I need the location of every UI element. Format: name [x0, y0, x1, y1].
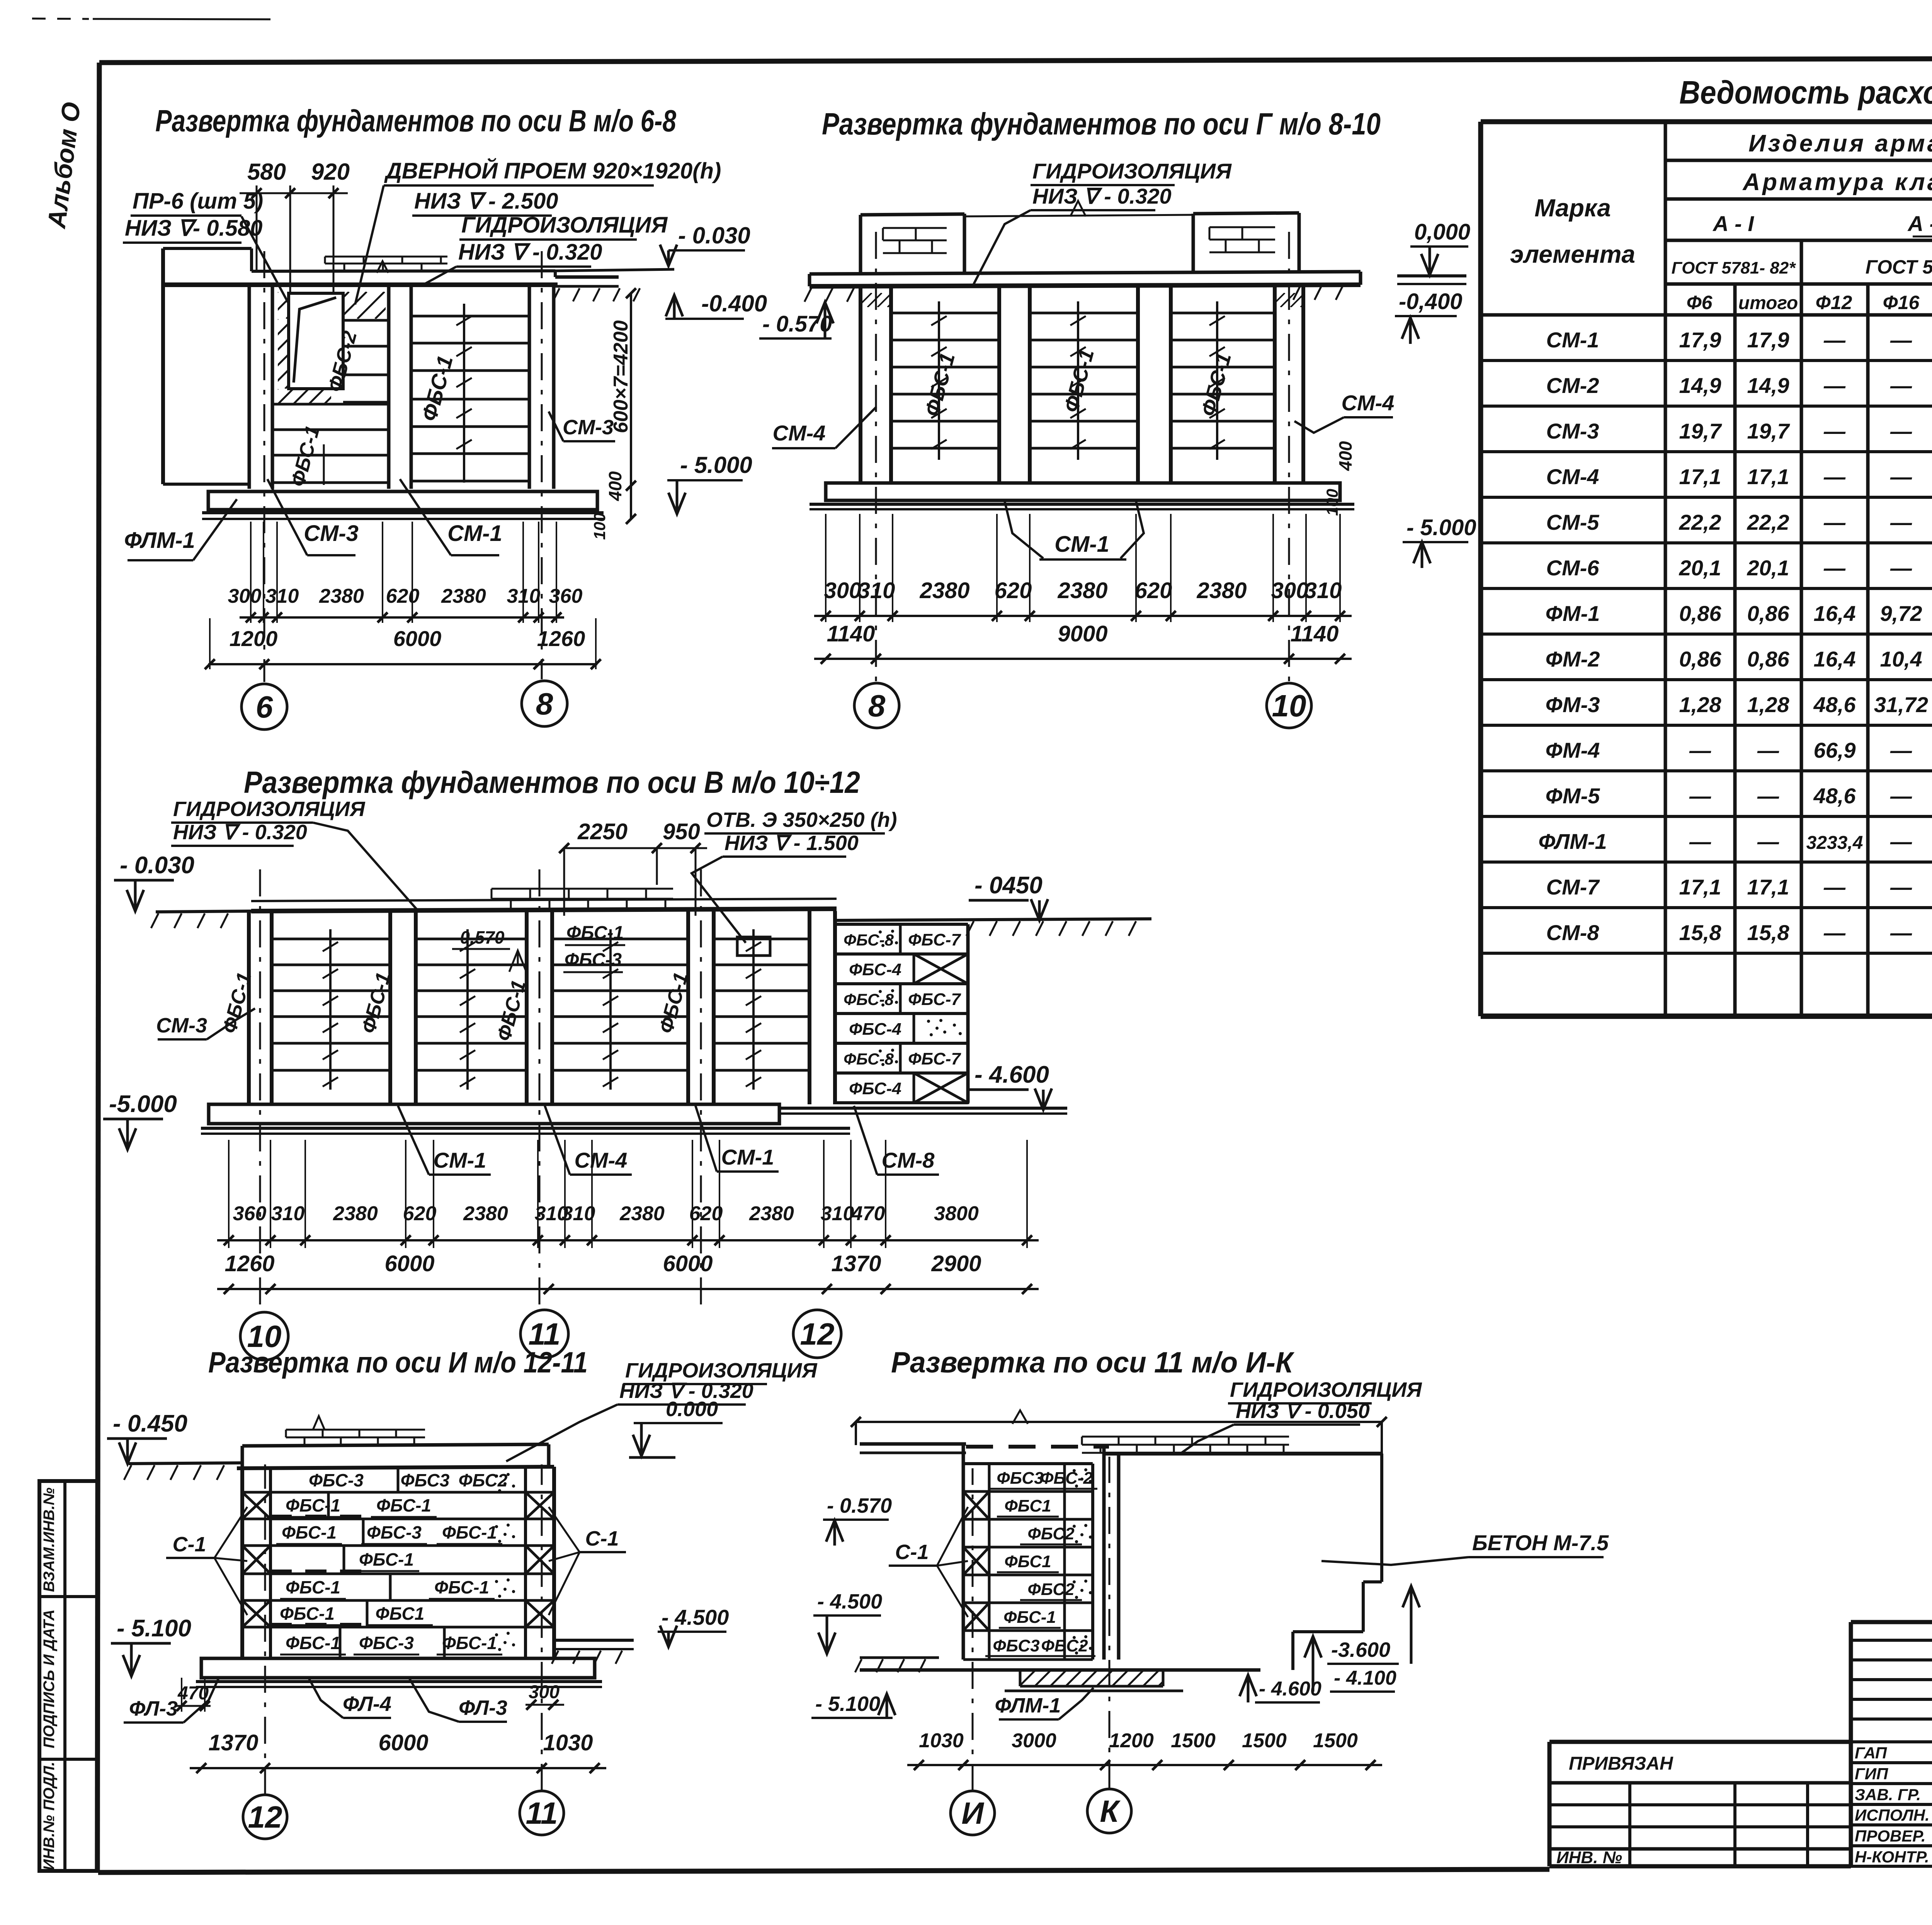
svg-text:СМ-3: СМ-3	[1546, 419, 1599, 443]
svg-text:СМ-8: СМ-8	[1546, 920, 1600, 945]
svg-text:СМ-1: СМ-1	[1546, 328, 1599, 352]
svg-text:8: 8	[868, 689, 886, 723]
svg-text:- 4.500: - 4.500	[817, 1590, 882, 1613]
svg-text:СМ-4: СМ-4	[1342, 391, 1395, 415]
svg-text:ДВЕРНОЙ ПРОЕМ 920×1920(h): ДВЕРНОЙ ПРОЕМ 920×1920(h)	[384, 158, 721, 184]
svg-text:2380: 2380	[749, 1202, 794, 1225]
svg-text:ФБС-1: ФБС-1	[376, 1495, 431, 1515]
svg-text:20,1: 20,1	[1747, 556, 1789, 580]
svg-text:ГИДРОИЗОЛЯЦИЯ: ГИДРОИЗОЛЯЦИЯ	[1230, 1378, 1422, 1401]
svg-text:ФБС2: ФБС2	[1027, 1524, 1075, 1543]
svg-text:ИНВ.№ ПОДЛ.: ИНВ.№ ПОДЛ.	[41, 1762, 58, 1870]
svg-text:-5.000: -5.000	[109, 1091, 177, 1117]
svg-text:Развертка по оси 11 м/о: Развертка по оси 11 м/о И-К	[891, 1346, 1295, 1379]
svg-text:Развертка фундаментов по: Развертка фундаментов по оси В м/о 10÷12	[244, 765, 860, 799]
svg-text:НИЗ ∇ - 1.500: НИЗ ∇ - 1.500	[724, 832, 859, 855]
svg-text:2380: 2380	[1196, 578, 1247, 603]
svg-text:ФБС-1: ФБС-1	[280, 1604, 335, 1624]
svg-text:НИЗ ∇ - 0.320: НИЗ ∇ - 0.320	[1032, 184, 1172, 208]
svg-text:1200: 1200	[230, 626, 278, 651]
svg-text:48,6: 48,6	[1813, 784, 1856, 808]
svg-text:ФБС-4: ФБС-4	[849, 1020, 901, 1039]
svg-text:ФБС-7: ФБС-7	[908, 990, 961, 1009]
svg-text:3000: 3000	[1012, 1729, 1056, 1752]
svg-text:310: 310	[265, 585, 299, 607]
svg-text:- 0.570: - 0.570	[827, 1494, 892, 1517]
svg-text:310: 310	[562, 1202, 595, 1225]
svg-text:1,28: 1,28	[1679, 692, 1722, 717]
svg-text:—: —	[1890, 920, 1912, 945]
svg-text:С-1: С-1	[895, 1541, 929, 1564]
svg-text:2380: 2380	[441, 585, 486, 607]
svg-text:9000: 9000	[1058, 621, 1107, 646]
svg-text:- 5.100: - 5.100	[117, 1615, 191, 1642]
svg-text:И: И	[961, 1796, 984, 1830]
svg-text:—: —	[1757, 738, 1779, 762]
svg-text:1200: 1200	[1109, 1729, 1154, 1752]
svg-text:17,9: 17,9	[1747, 328, 1789, 352]
svg-text:ФБС3: ФБС3	[993, 1636, 1039, 1655]
svg-text:10,4: 10,4	[1880, 647, 1922, 671]
svg-text:ФБС-1: ФБС-1	[286, 1495, 340, 1515]
svg-text:элемента: элемента	[1510, 240, 1635, 268]
svg-text:2380: 2380	[463, 1202, 508, 1225]
svg-text:1140: 1140	[827, 621, 875, 646]
svg-text:ФМ-3: ФМ-3	[1546, 692, 1600, 717]
svg-text:ГИП: ГИП	[1855, 1765, 1888, 1783]
svg-text:ФЛМ-1: ФЛМ-1	[995, 1694, 1061, 1717]
svg-text:20,1: 20,1	[1679, 556, 1721, 580]
svg-text:22,2: 22,2	[1679, 510, 1721, 534]
svg-text:Марка: Марка	[1534, 194, 1611, 222]
svg-text:620: 620	[386, 585, 420, 607]
svg-text:580: 580	[247, 159, 286, 185]
svg-text:300: 300	[529, 1682, 560, 1702]
svg-text:СМ-7: СМ-7	[1546, 875, 1600, 899]
svg-text:17,1: 17,1	[1679, 875, 1721, 899]
svg-text:ГОСТ 5781- 82*: ГОСТ 5781- 82*	[1866, 256, 1932, 278]
svg-text:300: 300	[228, 585, 262, 607]
svg-text:15,8: 15,8	[1747, 920, 1790, 945]
svg-text:48,6: 48,6	[1813, 692, 1856, 717]
svg-text:ФБС-3: ФБС-3	[309, 1470, 364, 1490]
svg-text:СМ-6: СМ-6	[1546, 556, 1600, 580]
svg-text:ФБС-1: ФБС-1	[359, 1549, 414, 1570]
svg-text:ФБС-3: ФБС-3	[359, 1633, 414, 1653]
svg-text:310: 310	[271, 1202, 305, 1225]
svg-text:16,4: 16,4	[1814, 601, 1856, 626]
svg-text:СМ-4: СМ-4	[575, 1148, 628, 1172]
svg-text:0,86: 0,86	[1679, 601, 1722, 626]
svg-text:- 4.500: - 4.500	[662, 1605, 729, 1629]
svg-text:Развертка фундаментов по ос: Развертка фундаментов по оси Г м/о 8-10	[822, 107, 1381, 141]
svg-text:19,7: 19,7	[1679, 419, 1723, 443]
svg-text:400: 400	[1335, 441, 1355, 471]
svg-text:2380: 2380	[333, 1202, 378, 1225]
svg-text:310: 310	[821, 1202, 854, 1225]
svg-text:ФБС2: ФБС2	[459, 1470, 508, 1490]
svg-text:2250: 2250	[577, 819, 628, 844]
svg-text:ФБС-4: ФБС-4	[849, 1079, 901, 1098]
svg-text:100: 100	[1323, 489, 1341, 516]
svg-text:ФБС-8: ФБС-8	[844, 931, 894, 949]
svg-text:ГИДРОИЗОЛЯЦИЯ: ГИДРОИЗОЛЯЦИЯ	[173, 798, 366, 821]
svg-text:ФБС-4: ФБС-4	[849, 960, 901, 979]
svg-text:0.000: 0.000	[666, 1398, 718, 1421]
svg-text:Арматура класса: Арматура класса	[1742, 169, 1932, 196]
svg-text:К: К	[1100, 1794, 1121, 1828]
svg-text:1140: 1140	[1291, 621, 1339, 646]
svg-text:СМ-3: СМ-3	[304, 521, 359, 546]
svg-text:8: 8	[536, 687, 553, 721]
svg-text:17,1: 17,1	[1679, 464, 1721, 489]
svg-text:300: 300	[824, 578, 862, 603]
svg-text:—: —	[1890, 510, 1912, 534]
svg-text:2380: 2380	[319, 585, 364, 607]
svg-text:ФБС2: ФБС2	[1027, 1580, 1075, 1599]
svg-text:620: 620	[403, 1202, 437, 1225]
svg-text:310: 310	[1304, 578, 1342, 603]
svg-text:1370: 1370	[831, 1251, 881, 1276]
svg-text:—: —	[1757, 829, 1779, 854]
svg-text:6000: 6000	[393, 626, 442, 651]
svg-text:1,28: 1,28	[1747, 692, 1790, 717]
svg-text:НИЗ ∇ - 0.320: НИЗ ∇ - 0.320	[173, 821, 307, 844]
svg-text:—: —	[1890, 328, 1912, 352]
svg-text:ГАП: ГАП	[1855, 1744, 1887, 1762]
svg-text:ФБС1: ФБС1	[1004, 1496, 1051, 1515]
svg-text:ФБС-1: ФБС-1	[442, 1633, 497, 1653]
svg-text:—: —	[1890, 738, 1912, 762]
svg-text:17,1: 17,1	[1747, 464, 1789, 489]
svg-text:66,9: 66,9	[1814, 738, 1856, 762]
svg-text:- 0.030: - 0.030	[120, 852, 194, 879]
svg-text:ФБС-3: ФБС-3	[565, 950, 622, 970]
svg-text:ПОДПИСЬ И ДАТА: ПОДПИСЬ И ДАТА	[41, 1609, 58, 1748]
svg-text:ФБС-8: ФБС-8	[844, 990, 894, 1008]
svg-text:360: 360	[233, 1202, 267, 1225]
svg-text:ФБС-1: ФБС-1	[286, 1633, 340, 1653]
svg-text:- 5.000: - 5.000	[1406, 515, 1476, 540]
svg-text:- 5.100: - 5.100	[815, 1692, 880, 1716]
svg-text:- 0.570: - 0.570	[762, 311, 832, 337]
svg-text:1260: 1260	[224, 1251, 274, 1276]
svg-text:—: —	[1823, 875, 1846, 899]
svg-text:—: —	[1823, 328, 1846, 352]
svg-text:ГОСТ 5781- 82*: ГОСТ 5781- 82*	[1672, 258, 1796, 277]
svg-text:ФБС-1: ФБС-1	[282, 1522, 337, 1542]
svg-text:0,86: 0,86	[1747, 647, 1790, 671]
svg-text:300: 300	[1271, 578, 1309, 603]
svg-text:СМ-1: СМ-1	[447, 521, 502, 546]
svg-text:итого: итого	[1738, 293, 1798, 313]
svg-text:470: 470	[851, 1202, 885, 1225]
svg-text:—: —	[1890, 419, 1912, 443]
svg-text:-0,400: -0,400	[1399, 289, 1462, 314]
svg-text:ФМ-4: ФМ-4	[1546, 738, 1600, 762]
svg-text:6000: 6000	[378, 1730, 428, 1755]
svg-text:—: —	[1823, 373, 1846, 398]
svg-text:620: 620	[995, 578, 1032, 603]
svg-text:1500: 1500	[1242, 1729, 1287, 1752]
svg-text:СМ-2: СМ-2	[1546, 373, 1599, 398]
svg-text:-0.570: -0.570	[454, 927, 505, 947]
svg-text:Развертка фундаментов по ос: Развертка фундаментов по оси В м/о 6-8	[155, 104, 676, 138]
svg-text:17,1: 17,1	[1747, 875, 1789, 899]
svg-text:12: 12	[800, 1317, 835, 1351]
svg-text:ФЛ-3: ФЛ-3	[459, 1696, 507, 1719]
svg-text:- 0.450: - 0.450	[113, 1410, 187, 1437]
svg-text:—: —	[1823, 419, 1846, 443]
svg-text:920: 920	[311, 159, 350, 185]
svg-text:СМ-1: СМ-1	[721, 1145, 774, 1169]
svg-text:НИЗ ∇ - 2.500: НИЗ ∇ - 2.500	[414, 189, 558, 214]
svg-text:1500: 1500	[1313, 1729, 1358, 1752]
svg-text:22,2: 22,2	[1747, 510, 1789, 534]
svg-text:6000: 6000	[384, 1251, 434, 1276]
svg-text:СМ-8: СМ-8	[882, 1148, 935, 1172]
svg-text:6: 6	[256, 690, 273, 724]
svg-text:—: —	[1890, 829, 1912, 854]
svg-text:- 5.000: - 5.000	[680, 452, 752, 478]
svg-text:16,4: 16,4	[1814, 647, 1856, 671]
svg-text:—: —	[1689, 738, 1711, 762]
svg-text:6000: 6000	[663, 1251, 713, 1276]
svg-text:ОТВ. Э 350×250 (h): ОТВ. Э 350×250 (h)	[706, 808, 897, 832]
svg-text:ПРИВЯЗАН: ПРИВЯЗАН	[1569, 1753, 1673, 1774]
svg-text:0,000: 0,000	[1414, 219, 1470, 245]
svg-text:9,72: 9,72	[1880, 601, 1922, 626]
svg-text:Изделия арматурные: Изделия арматурные	[1748, 130, 1932, 157]
svg-text:ФМ-5: ФМ-5	[1546, 784, 1600, 808]
svg-text:2380: 2380	[619, 1202, 665, 1225]
svg-text:ФБС-3: ФБС-3	[367, 1522, 422, 1542]
svg-text:СМ-3: СМ-3	[156, 1014, 207, 1037]
svg-text:360: 360	[549, 585, 583, 607]
svg-text:ФБС-1: ФБС-1	[1003, 1608, 1056, 1627]
svg-text:—: —	[1757, 784, 1779, 808]
svg-text:1030: 1030	[543, 1730, 593, 1755]
svg-text:—: —	[1823, 920, 1846, 945]
svg-text:ФБС-1: ФБС-1	[434, 1577, 489, 1597]
svg-text:31,72: 31,72	[1874, 692, 1928, 717]
svg-text:—: —	[1823, 556, 1846, 580]
svg-text:Ведомость расхода стали: Ведомость расхода стали на 1 элемент, кг	[1679, 74, 1932, 111]
svg-text:-3.600: -3.600	[1331, 1638, 1390, 1661]
svg-text:ЗАВ. ГР.: ЗАВ. ГР.	[1855, 1786, 1921, 1804]
svg-text:ГИДРОИЗОЛЯЦИЯ: ГИДРОИЗОЛЯЦИЯ	[461, 213, 668, 238]
svg-text:ФБС-7: ФБС-7	[908, 1049, 961, 1068]
svg-text:11: 11	[526, 1796, 558, 1830]
svg-text:ФБС-2: ФБС-2	[1040, 1469, 1093, 1488]
svg-text:Н-КОНТР.: Н-КОНТР.	[1855, 1848, 1929, 1866]
svg-text:3233,4: 3233,4	[1806, 833, 1863, 853]
svg-text:—: —	[1823, 464, 1846, 489]
svg-text:0,86: 0,86	[1679, 647, 1722, 671]
svg-text:1370: 1370	[208, 1730, 258, 1755]
svg-text:—: —	[1890, 373, 1912, 398]
svg-text:А - Ш: А - Ш	[1907, 211, 1932, 236]
svg-text:17,9: 17,9	[1679, 328, 1721, 352]
svg-text:НИЗ ∇ - 0.320: НИЗ ∇ - 0.320	[458, 240, 602, 265]
svg-text:ФМ-1: ФМ-1	[1546, 601, 1600, 626]
svg-text:СМ-1: СМ-1	[1054, 532, 1109, 557]
svg-text:ФБС-1: ФБС-1	[442, 1522, 497, 1542]
svg-text:620: 620	[689, 1202, 723, 1225]
svg-text:СМ-3: СМ-3	[563, 416, 614, 439]
svg-text:ИСПОЛН.: ИСПОЛН.	[1855, 1806, 1930, 1824]
svg-text:—: —	[1890, 784, 1912, 808]
svg-text:1500: 1500	[1171, 1729, 1216, 1752]
svg-text:—: —	[1890, 556, 1912, 580]
svg-text:400: 400	[605, 471, 625, 501]
svg-text:ФБС3: ФБС3	[997, 1469, 1043, 1488]
svg-text:ФБС1: ФБС1	[1004, 1552, 1051, 1571]
svg-text:ПРОВЕР.: ПРОВЕР.	[1855, 1827, 1926, 1845]
svg-text:ФЛ-4: ФЛ-4	[343, 1692, 391, 1716]
svg-text:12: 12	[248, 1800, 282, 1834]
svg-text:- 0450: - 0450	[975, 872, 1043, 899]
svg-text:—: —	[1689, 784, 1711, 808]
svg-text:ФБС-1: ФБС-1	[566, 923, 624, 943]
svg-text:ФЛ-3: ФЛ-3	[129, 1697, 178, 1720]
svg-text:3800: 3800	[934, 1202, 979, 1225]
svg-text:2900: 2900	[931, 1251, 981, 1276]
svg-text:С-1: С-1	[585, 1527, 619, 1550]
svg-text:Развертка по оси И м/о: Развертка по оси И м/о 12-11	[208, 1346, 588, 1379]
svg-text:ФЛМ-1: ФЛМ-1	[124, 528, 195, 553]
svg-text:600×7=4200: 600×7=4200	[610, 320, 632, 433]
svg-text:ФБС-8: ФБС-8	[844, 1050, 894, 1068]
svg-text:1260: 1260	[537, 626, 585, 651]
svg-text:—: —	[1823, 510, 1846, 534]
svg-text:ФБС3: ФБС3	[401, 1470, 450, 1490]
svg-text:1030: 1030	[919, 1729, 964, 1752]
svg-text:А - I: А - I	[1712, 211, 1754, 236]
svg-text:- 4.600: - 4.600	[1259, 1678, 1321, 1700]
svg-text:2380: 2380	[1057, 578, 1107, 603]
svg-text:310: 310	[858, 578, 895, 603]
svg-text:—: —	[1689, 829, 1711, 854]
svg-text:620: 620	[1135, 578, 1172, 603]
svg-text:100: 100	[590, 513, 609, 540]
svg-text:ФБС1: ФБС1	[376, 1604, 425, 1624]
svg-text:СМ-1: СМ-1	[434, 1148, 486, 1172]
svg-text:2380: 2380	[919, 578, 969, 603]
svg-text:ФЛМ-1: ФЛМ-1	[1538, 829, 1607, 854]
svg-text:- 4.600: - 4.600	[975, 1061, 1049, 1088]
svg-text:ФБС-7: ФБС-7	[908, 930, 961, 949]
svg-text:14,9: 14,9	[1679, 373, 1721, 398]
svg-text:15,8: 15,8	[1679, 920, 1722, 945]
svg-text:Ф12: Ф12	[1816, 292, 1852, 313]
svg-text:СМ-5: СМ-5	[1546, 510, 1600, 534]
svg-text:НИЗ ∇ - 0.050: НИЗ ∇ - 0.050	[1236, 1400, 1370, 1423]
svg-text:С-1: С-1	[172, 1533, 206, 1556]
svg-text:0,86: 0,86	[1747, 601, 1790, 626]
svg-text:14,9: 14,9	[1747, 373, 1789, 398]
svg-text:—: —	[1890, 464, 1912, 489]
svg-text:Ф16: Ф16	[1883, 292, 1920, 313]
svg-text:ГИДРОИЗОЛЯЦИЯ: ГИДРОИЗОЛЯЦИЯ	[1032, 159, 1232, 183]
svg-text:Ф6: Ф6	[1687, 292, 1713, 313]
svg-text:ФБС-1: ФБС-1	[286, 1577, 340, 1597]
svg-text:СМ-4: СМ-4	[773, 421, 826, 445]
svg-text:-0.400: -0.400	[701, 291, 767, 316]
svg-text:- 0.030: - 0.030	[678, 223, 750, 248]
svg-text:ГИДРОИЗОЛЯЦИЯ: ГИДРОИЗОЛЯЦИЯ	[625, 1359, 818, 1382]
svg-text:19,7: 19,7	[1747, 419, 1791, 443]
svg-text:950: 950	[663, 819, 700, 844]
svg-text:—: —	[1890, 875, 1912, 899]
svg-text:- 4.100: - 4.100	[1334, 1667, 1396, 1689]
svg-text:ВЗАМ.ИНВ.№: ВЗАМ.ИНВ.№	[41, 1488, 58, 1592]
svg-text:ИНВ. №: ИНВ. №	[1556, 1848, 1622, 1867]
svg-text:ФМ-2: ФМ-2	[1546, 647, 1600, 671]
svg-text:10: 10	[1272, 689, 1306, 723]
svg-text:БЕТОН М-7.5: БЕТОН М-7.5	[1472, 1530, 1609, 1555]
svg-text:СМ-4: СМ-4	[1546, 464, 1599, 489]
